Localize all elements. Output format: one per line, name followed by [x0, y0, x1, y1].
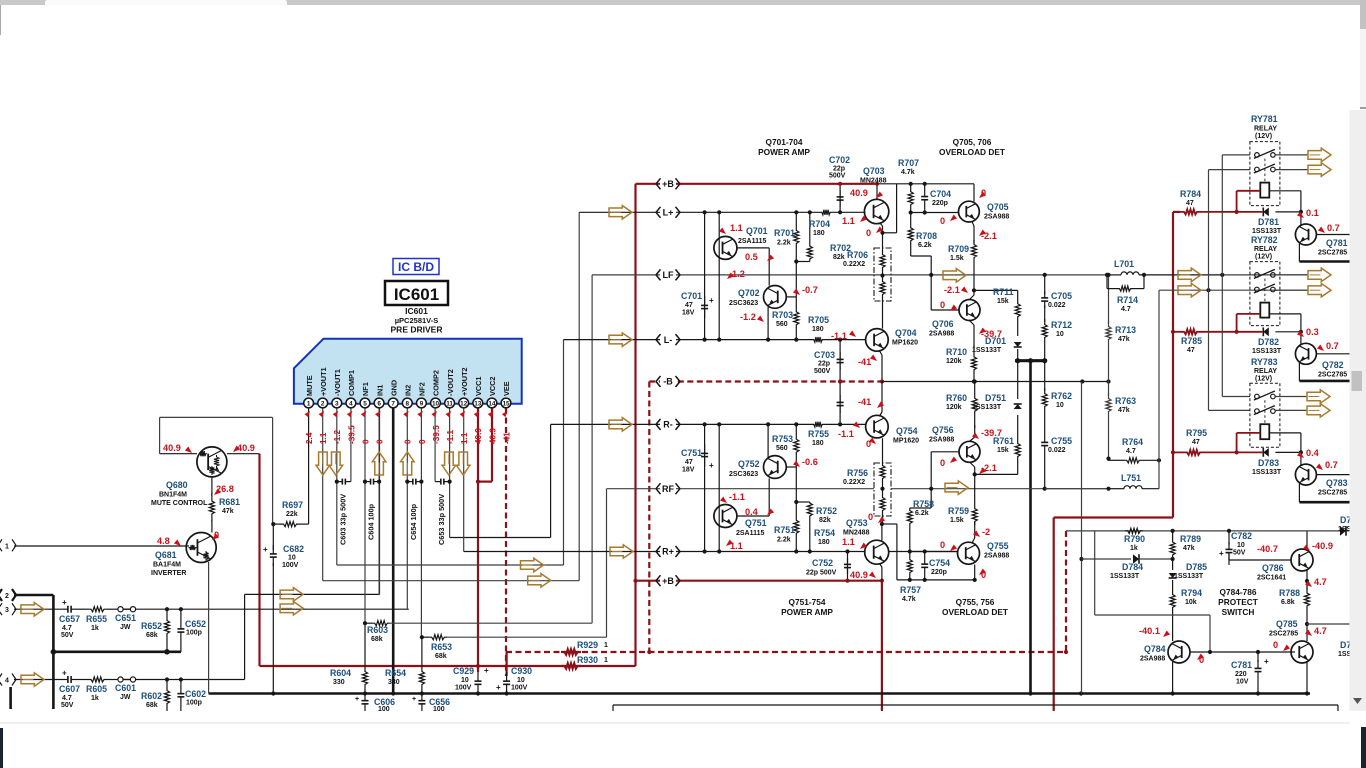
transistor Q751 [714, 505, 737, 528]
jumper C651 [118, 607, 123, 612]
svg-text:-0.7: -0.7 [802, 285, 818, 295]
arrow in2 [280, 602, 303, 616]
svg-text:C930: C930 [511, 666, 532, 676]
svg-text:+: + [709, 296, 714, 305]
svg-text:D781: D781 [1258, 217, 1279, 227]
wire pin3 riser [336, 408, 338, 565]
svg-text:R784: R784 [1180, 189, 1201, 199]
svg-text:1k: 1k [91, 625, 99, 632]
svg-text:2SC2785: 2SC2785 [1269, 631, 1298, 638]
node L- [660, 335, 676, 345]
svg-text:-1.1: -1.1 [838, 429, 854, 439]
wire conn2 stub [14, 594, 53, 597]
wire IN1 riser [379, 403, 381, 594]
svg-text:C752: C752 [812, 558, 833, 568]
wire RY781 sw1 row [1222, 154, 1250, 156]
transistor Q704 [866, 329, 889, 352]
wire -B dashed rail [649, 380, 882, 382]
svg-text:Q680: Q680 [166, 480, 188, 490]
svg-text:0.4: 0.4 [745, 507, 759, 517]
svg-text:0: 0 [404, 439, 413, 444]
svg-text:-41: -41 [502, 432, 511, 444]
corner block right [1361, 727, 1366, 768]
resistor R711 [1015, 290, 1020, 330]
wire RY782 coil out [1269, 313, 1301, 315]
svg-text:10: 10 [432, 401, 440, 408]
transistor Q754 [866, 415, 889, 438]
wire Q753 emitter [880, 564, 882, 568]
wire Q783 base [1316, 474, 1352, 476]
svg-text:7: 7 [391, 401, 395, 408]
svg-text:500V: 500V [814, 368, 831, 375]
wire conn3 row [14, 608, 63, 610]
arrow pin12 down [456, 452, 470, 475]
svg-text:IN1: IN1 [375, 385, 384, 396]
svg-text:Q781: Q781 [1326, 238, 1348, 248]
svg-text:C702: C702 [829, 155, 850, 165]
node RF [660, 484, 676, 494]
svg-text:C704: C704 [930, 189, 951, 199]
node -B [660, 377, 676, 387]
svg-text:4.7: 4.7 [62, 695, 72, 702]
transistor Q701 [714, 236, 737, 259]
svg-text:1.5k: 1.5k [950, 255, 964, 262]
svg-text:1.1: 1.1 [319, 432, 328, 444]
resistor R604 [362, 623, 367, 693]
svg-text:R788: R788 [1279, 588, 1300, 598]
resistor R930 [561, 663, 581, 668]
diode D782 [1275, 331, 1301, 333]
wire conn2 drop [52, 595, 55, 709]
svg-text:D782: D782 [1258, 337, 1279, 347]
wire RF relay row [1159, 289, 1307, 291]
svg-text:R714: R714 [1117, 295, 1138, 305]
svg-text:1k: 1k [1130, 545, 1138, 552]
wire Q756 emitter [970, 437, 975, 442]
resistor R709 [971, 240, 976, 262]
svg-text:C657: C657 [59, 614, 80, 624]
svg-text:2: 2 [321, 401, 325, 408]
svg-text:OVERLOAD DET: OVERLOAD DET [939, 147, 1005, 157]
capacitor C782 [1228, 531, 1230, 545]
capacitor C606 [364, 694, 366, 701]
wire RY781 sw2 row [1209, 169, 1251, 171]
svg-text:1: 1 [604, 642, 608, 649]
resistor R785 [1173, 331, 1180, 333]
svg-text:15k: 15k [997, 298, 1009, 305]
svg-text:1.1: 1.1 [842, 216, 855, 226]
arrow L- in [609, 333, 632, 347]
resistor R652 [164, 609, 169, 652]
svg-text:Q705, 706: Q705, 706 [953, 137, 992, 147]
transistor Q783 [1295, 464, 1316, 485]
svg-text:R711: R711 [993, 287, 1014, 297]
inductor L751 [1045, 488, 1109, 490]
svg-text:180: 180 [812, 440, 824, 447]
wire det base row [911, 212, 959, 214]
svg-text:10: 10 [517, 677, 525, 684]
svg-text:C603 33p 500V: C603 33p 500V [339, 494, 348, 545]
svg-text:R603: R603 [367, 625, 388, 635]
svg-text:R705: R705 [808, 315, 829, 325]
wire conn4 row [14, 679, 63, 681]
svg-text:RY783: RY783 [1251, 357, 1278, 367]
svg-text:330: 330 [388, 679, 400, 686]
wire Q704 emitter [880, 351, 883, 355]
svg-text:47: 47 [1192, 439, 1200, 446]
svg-text:+: + [1264, 657, 1269, 666]
svg-text:40.9: 40.9 [850, 188, 868, 198]
wire Q781 emitter [1298, 244, 1300, 262]
node +B [660, 179, 676, 189]
svg-text:Q704: Q704 [895, 328, 917, 338]
svg-text:4.7: 4.7 [1314, 577, 1327, 587]
capacitor C602 [180, 680, 182, 694]
svg-text:R754: R754 [814, 528, 835, 538]
wire Q781 collector [1300, 212, 1302, 226]
svg-text:RELAY: RELAY [1254, 368, 1277, 375]
svg-text:1SS133T: 1SS133T [1110, 573, 1140, 580]
wire +B rail top [636, 183, 878, 185]
svg-text:R697: R697 [282, 500, 303, 510]
svg-text:POWER AMP: POWER AMP [758, 147, 810, 157]
svg-text:R762: R762 [1051, 391, 1072, 401]
svg-text:JW: JW [120, 694, 131, 701]
resistor R757 [907, 552, 912, 581]
wire Q752 base stub [786, 466, 796, 468]
svg-text:1.1: 1.1 [460, 432, 469, 444]
capacitor C929 [477, 672, 479, 681]
wire conn4 riser [244, 594, 246, 679]
arrow R- in [609, 418, 632, 432]
resistor R701 [794, 212, 799, 261]
svg-text:R712: R712 [1051, 320, 1072, 330]
svg-text:50V: 50V [61, 702, 74, 709]
svg-text:R703: R703 [772, 310, 793, 320]
svg-text:RY782: RY782 [1251, 235, 1278, 245]
svg-text:82k: 82k [833, 254, 845, 261]
diode D784 [1082, 558, 1132, 560]
svg-text:40.9: 40.9 [488, 428, 497, 444]
wire [76, 608, 88, 610]
jumper C601 [118, 677, 123, 682]
node +B right [660, 576, 676, 586]
svg-text:Q785: Q785 [1276, 619, 1298, 629]
wire Q783 thick row [1299, 501, 1350, 504]
wire LF riser [591, 275, 593, 623]
svg-text:SWITCH: SWITCH [1222, 607, 1255, 617]
svg-text:R605: R605 [86, 684, 107, 694]
svg-text:RELAY: RELAY [1254, 246, 1277, 253]
svg-text:2SC2785: 2SC2785 [1318, 372, 1347, 379]
svg-text:JW: JW [120, 624, 131, 631]
svg-text:15k: 15k [997, 447, 1009, 454]
viewer left edge [0, 5, 2, 35]
resistor R714 [1106, 275, 1108, 289]
wire Q753 collector [881, 524, 883, 541]
svg-text:Q702: Q702 [738, 288, 760, 298]
svg-text:R794: R794 [1181, 588, 1202, 598]
svg-text:50V: 50V [61, 632, 74, 639]
svg-text:R704: R704 [809, 219, 830, 229]
svg-text:0.22X2: 0.22X2 [843, 479, 865, 486]
wire RY781 coil feed [1236, 191, 1238, 212]
resistor R706a [880, 233, 885, 276]
transistor Q782 [1295, 343, 1316, 364]
wire LF row [592, 274, 1107, 276]
svg-text:14: 14 [488, 401, 496, 408]
svg-text:0: 0 [361, 439, 370, 444]
svg-text:0: 0 [868, 512, 873, 522]
svg-text:2SC3623: 2SC3623 [729, 300, 758, 307]
svg-text:C754: C754 [929, 558, 950, 568]
resistor R764 [1108, 459, 1110, 461]
svg-text:OVERLOAD DET: OVERLOAD DET [942, 607, 1008, 617]
svg-text:C755: C755 [1051, 436, 1072, 446]
svg-text:10: 10 [1237, 542, 1245, 549]
svg-text:1SS133T: 1SS133T [1252, 228, 1282, 235]
resistor R758 [907, 508, 912, 552]
svg-text:6.2k: 6.2k [915, 510, 929, 517]
connector 4 [0, 674, 2, 680]
wire pin5 riser [364, 408, 366, 623]
wire RY781 sw2 out [1275, 169, 1308, 171]
resistor R605 [88, 677, 107, 682]
svg-text:MN2488: MN2488 [860, 178, 887, 185]
wire relay col 1208 [1208, 170, 1210, 411]
wire Q786 emitter [1306, 571, 1308, 591]
wire RF row2 [891, 488, 1107, 490]
wire -B ext [882, 381, 1109, 383]
svg-text:40.9: 40.9 [474, 428, 483, 444]
resistor R703 [794, 297, 799, 340]
svg-text:1.1: 1.1 [842, 537, 855, 547]
svg-text:0: 0 [376, 439, 385, 444]
svg-text:2SA1115: 2SA1115 [736, 530, 765, 537]
resistor R704 [820, 210, 832, 215]
capacitor C781 [1257, 652, 1259, 662]
svg-text:BN1F4M: BN1F4M [159, 492, 187, 499]
svg-text:Q755, 756: Q755, 756 [956, 597, 995, 607]
wire Q784 emitter [1172, 662, 1174, 694]
wire Q680 base [160, 453, 197, 455]
relay RY782 [1250, 262, 1280, 326]
svg-text:2SC2785: 2SC2785 [1318, 490, 1347, 497]
transistor Q680 [197, 447, 227, 477]
svg-text:220: 220 [1235, 671, 1247, 678]
svg-text:C929: C929 [453, 666, 474, 676]
wire pin8 riser [406, 408, 408, 609]
svg-text:2SA988: 2SA988 [1140, 656, 1165, 663]
wire conn3 row cont [136, 608, 409, 610]
svg-text:R785: R785 [1181, 336, 1202, 346]
transistor Q755 [958, 542, 980, 564]
wire pin3 row [337, 564, 564, 566]
arrow in1 [280, 588, 303, 602]
capacitor C755 [1044, 434, 1046, 442]
svg-text:R604: R604 [330, 668, 351, 678]
svg-text:C782: C782 [1231, 531, 1252, 541]
svg-text:R763: R763 [1115, 396, 1136, 406]
connector 2 [0, 589, 2, 595]
svg-text:0.022: 0.022 [1048, 302, 1066, 309]
node L+ [660, 207, 676, 217]
svg-text:0: 0 [940, 458, 945, 468]
label IC B/D [393, 259, 439, 275]
svg-text:+: + [496, 683, 501, 692]
wire R- to Q754 [824, 423, 866, 425]
label IC601 box [385, 281, 448, 305]
wire Q702 base stub [786, 296, 796, 298]
resistor R708 [908, 213, 913, 257]
wire node290 row [974, 289, 1018, 291]
resistor R707 [908, 184, 913, 213]
svg-text:Q756: Q756 [932, 425, 954, 435]
arrow RY782 in b [1178, 283, 1201, 297]
transistor Q703 [864, 199, 888, 223]
svg-text:0.5: 0.5 [745, 252, 758, 262]
wire Q706 emitter [970, 321, 975, 326]
arrow relay2b [1308, 283, 1331, 297]
svg-text:500V: 500V [829, 173, 846, 180]
wire RY783 sw2 out [1275, 409, 1307, 411]
wire Q785 branch [1307, 623, 1350, 625]
transistor Q752 [764, 456, 787, 479]
svg-text:1.5k: 1.5k [950, 517, 964, 524]
svg-text:R789: R789 [1180, 534, 1201, 544]
wire RY781 sw1 out [1275, 154, 1308, 156]
capacitor C657 [63, 608, 68, 610]
svg-text:R713: R713 [1115, 325, 1136, 335]
svg-text:4.7: 4.7 [62, 625, 72, 632]
diode D783 [1275, 451, 1301, 453]
resistor R752 [807, 502, 812, 552]
svg-text:NF2: NF2 [418, 382, 427, 396]
resistor R753 [794, 424, 799, 467]
svg-text:Q755: Q755 [987, 541, 1009, 551]
resistor R705 [812, 337, 824, 342]
svg-text:2.2k: 2.2k [777, 537, 791, 544]
svg-text:PROTECT: PROTECT [1218, 597, 1258, 607]
svg-text:BA1F4M: BA1F4M [153, 562, 181, 569]
svg-text:R653: R653 [431, 642, 452, 652]
svg-text:0.7: 0.7 [1327, 223, 1340, 233]
svg-text:IN2: IN2 [404, 385, 413, 396]
wire RY783 sw2 row [1209, 409, 1251, 411]
wire conn1 row [14, 545, 189, 547]
resistor R755 [812, 422, 824, 427]
svg-text:R710: R710 [946, 347, 967, 357]
svg-text:-B: -B [663, 377, 673, 387]
svg-text:C602: C602 [185, 689, 206, 699]
svg-text:47k: 47k [1118, 407, 1130, 414]
capacitor C752 [847, 552, 849, 581]
svg-text:0: 0 [940, 216, 945, 226]
svg-text:-2: -2 [982, 527, 990, 537]
IC601 block [294, 339, 522, 404]
wire Q755 collector [974, 565, 976, 580]
svg-text:2SC2785: 2SC2785 [1318, 250, 1347, 257]
svg-text:R758: R758 [913, 499, 934, 509]
wire RY783 sw1 out [1275, 396, 1307, 398]
wire Q705 collector [973, 184, 975, 202]
svg-text:4.7: 4.7 [1126, 448, 1136, 455]
wire Q751 column [718, 424, 720, 551]
resistor R710 [971, 345, 976, 382]
svg-text:0: 0 [418, 439, 427, 444]
svg-text:220p: 220p [932, 200, 948, 207]
svg-text:+: + [62, 598, 67, 607]
svg-text:LF: LF [663, 270, 674, 280]
svg-text:+: + [263, 545, 268, 554]
resistor R712 [1044, 305, 1046, 322]
transistor Q753 [865, 540, 889, 564]
svg-text:10V: 10V [1236, 679, 1249, 686]
svg-text:10: 10 [288, 555, 296, 562]
resistor R788 [1304, 585, 1309, 614]
wire mute left [159, 417, 161, 453]
svg-text:5: 5 [363, 401, 367, 408]
wire R701-Q702 [795, 262, 797, 297]
box R756 [874, 463, 891, 516]
svg-text:1SS133T: 1SS133T [1252, 348, 1282, 355]
svg-text:47k: 47k [1118, 336, 1130, 343]
capacitor C930 [506, 652, 508, 676]
wire Q680 out [227, 453, 260, 455]
capacitor C607 [63, 679, 68, 681]
svg-text:11: 11 [446, 401, 453, 408]
capacitor C703 [839, 340, 841, 382]
svg-text:1: 1 [604, 657, 608, 664]
svg-text:+: + [355, 696, 359, 703]
svg-text:13: 13 [474, 401, 482, 408]
svg-text:RY781: RY781 [1251, 114, 1278, 124]
scrollbar gutter [1350, 110, 1366, 711]
arrow relay3a [1307, 390, 1330, 403]
svg-text:R751: R751 [774, 525, 795, 535]
arrow RF mid [945, 481, 968, 495]
svg-text:0.022: 0.022 [1048, 447, 1066, 454]
wire VCC2 pin14 [491, 408, 493, 482]
svg-text:120k: 120k [946, 358, 962, 365]
svg-text:3: 3 [5, 607, 9, 614]
page bottom shadow [0, 722, 1350, 724]
node +B/VCC1 junction [476, 664, 480, 668]
wire relay supply riser [1172, 212, 1174, 518]
wire out jog top [883, 232, 897, 234]
svg-text:10k: 10k [1185, 599, 1197, 606]
wire Q782 collector [1300, 332, 1302, 345]
svg-text:D785: D785 [1186, 562, 1207, 572]
svg-text:(12V): (12V) [1255, 376, 1272, 383]
wire R697 feed [272, 417, 274, 524]
svg-text:RELAY: RELAY [1254, 126, 1277, 133]
wire Q756 base [931, 451, 959, 453]
svg-text:-40.1: -40.1 [1139, 626, 1160, 636]
svg-text:C703: C703 [814, 350, 835, 360]
svg-text:47: 47 [1187, 347, 1195, 354]
wire Q786 base [1228, 552, 1230, 560]
svg-text:100V: 100V [511, 685, 528, 692]
svg-text:R706: R706 [847, 250, 868, 260]
svg-text:68k: 68k [371, 636, 383, 643]
svg-text:+B: +B [662, 179, 674, 189]
node LF [660, 270, 676, 280]
svg-text:2.2k: 2.2k [777, 240, 791, 247]
wire Q706 collector [970, 295, 975, 300]
svg-text:6: 6 [377, 401, 381, 408]
resistor R759 [972, 505, 977, 525]
